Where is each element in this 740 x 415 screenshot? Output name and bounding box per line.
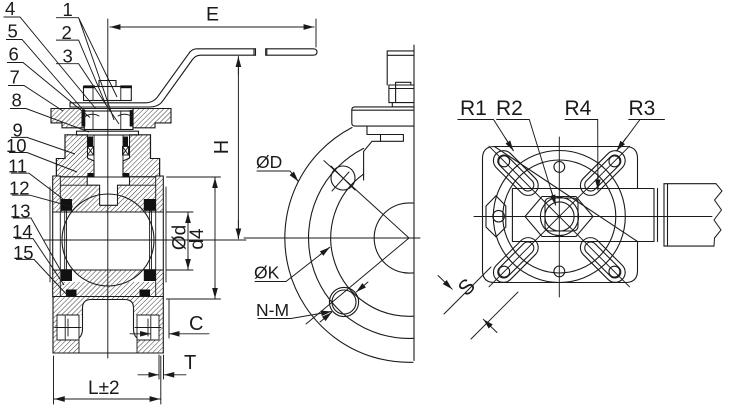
chamber wall right: [155, 177, 157, 297]
svg-text:6: 6: [9, 44, 19, 65]
svg-text:N-M: N-M: [256, 300, 289, 320]
svg-text:5: 5: [8, 21, 18, 42]
bore circle: [374, 203, 413, 273]
bolt hole top cross marks: [331, 166, 355, 191]
label 10 leader: [9, 153, 77, 173]
small hole top: [554, 162, 565, 173]
foot hole centermarks: [55, 319, 161, 336]
dimension Od (bore): [167, 211, 194, 213]
stem square top: [545, 198, 578, 231]
label 15 leader: [16, 259, 69, 297]
body outline right: [151, 135, 164, 297]
square mounting pad: [483, 147, 638, 283]
svg-text:4: 4: [5, 0, 15, 19]
svg-text:14: 14: [12, 221, 33, 242]
body bottom line: [53, 296, 164, 298]
svg-text:1: 1: [63, 0, 73, 20]
centerline horizontal (pipe axis): [44, 239, 174, 241]
bottom flange hatched band minus arch: [53, 297, 163, 316]
svg-text:C: C: [189, 313, 203, 335]
body outline left: [53, 135, 65, 297]
body wall left upper (hatched): [53, 176, 61, 212]
ball top crescent hatched left: [72, 195, 100, 212]
mounting plate right (hatched): [133, 109, 171, 128]
label 12 leader: [12, 195, 73, 207]
grip break (torn edge): [714, 184, 722, 246]
label 14 leader: [15, 239, 64, 285]
svg-text:11: 11: [8, 156, 27, 177]
label 2 leader: [56, 40, 106, 105]
svg-text:R3: R3: [629, 97, 656, 120]
hexagon hole: [493, 210, 505, 222]
flange circle ODmax: [285, 128, 413, 363]
svg-text:ØK: ØK: [254, 263, 280, 283]
seat upper right (black): [144, 199, 156, 211]
OK leader: [255, 248, 329, 282]
stem circles: [540, 197, 578, 235]
handle grip sleeve with break: [664, 184, 716, 246]
bore line bottom: [53, 269, 164, 271]
stem shaft: [93, 135, 95, 177]
pad circle inner: [503, 160, 616, 273]
dimension C: [130, 333, 151, 335]
neck steps: [364, 126, 381, 180]
svg-text:E: E: [206, 4, 219, 26]
centerline: [244, 237, 420, 239]
svg-text:R1: R1: [460, 97, 487, 120]
end lip right: [165, 187, 167, 282]
label 11 leader: [11, 173, 63, 199]
body bridge below ball (hatched): [60, 282, 155, 297]
gland packing bar right (black): [130, 110, 134, 127]
label 6 leader: [7, 63, 90, 118]
centerline vertical: [107, 19, 109, 358]
handle hub dark edges: [84, 85, 95, 88]
svg-text:ØD: ØD: [256, 152, 282, 172]
label 1 leader: [56, 18, 117, 120]
dome hatch left of stem: [60, 185, 99, 212]
stem hex nut (top view): [525, 197, 593, 237]
svg-text:12: 12: [9, 178, 30, 199]
end lip left: [49, 187, 51, 282]
hexagon end boss left: [486, 196, 506, 237]
svg-text:10: 10: [6, 135, 27, 156]
seat lower right (black): [144, 269, 156, 281]
dimension d4: [167, 176, 221, 178]
foot outlines: [53, 297, 163, 354]
ball: [62, 194, 154, 286]
foot right hatched bottom: [137, 340, 163, 353]
view centerlines: [558, 137, 560, 297]
label 7 leader: [8, 86, 63, 112]
gland packing bar left (black): [82, 110, 86, 127]
packing seal right (black): [123, 137, 128, 147]
stem tip: [99, 81, 116, 87]
bolt hole counterbore lines: [65, 316, 151, 339]
stem T-foot: [87, 177, 129, 205]
thrust seal left (black): [87, 173, 93, 177]
seat ring lines left: [65, 211, 67, 269]
diagonal centerline B: [489, 146, 630, 287]
bearing box left (X): [88, 147, 94, 156]
label 9 leader: [11, 137, 75, 154]
svg-text:15: 15: [13, 242, 34, 263]
bolt circle: [331, 174, 413, 316]
thrust seal right (black): [122, 173, 129, 177]
body neck left (hatched): [56, 135, 94, 177]
label 13 leader: [13, 218, 62, 273]
svg-text:L±2: L±2: [88, 378, 120, 399]
label 8 leader: [10, 109, 89, 133]
N-M leader: [258, 312, 331, 319]
handle band: [512, 189, 657, 242]
S dimension extension lines: [444, 267, 491, 314]
svg-text:7: 7: [10, 67, 20, 88]
svg-text:H: H: [211, 140, 233, 154]
dimension E: [315, 19, 317, 47]
label 4 leader: [4, 17, 97, 109]
handle lever (section view): [70, 49, 256, 103]
svg-text:8: 8: [12, 90, 22, 111]
svg-text:R4: R4: [565, 97, 592, 120]
body neck right (hatched): [123, 135, 160, 177]
ball bottom crescent hatched: [73, 270, 143, 286]
seat ring lines right: [150, 211, 152, 269]
S dimension arrows: [438, 276, 452, 290]
body gasket right (black): [140, 290, 151, 298]
bolt hole top: [331, 166, 355, 190]
dimension T: [138, 374, 159, 376]
bore line top: [53, 211, 164, 213]
stem column: [387, 51, 414, 85]
dimension L+-2: [53, 356, 55, 404]
pad circle outer: [493, 151, 625, 283]
flange face line: [413, 45, 415, 361]
radial line lower with arrows: [306, 238, 409, 324]
svg-text:R2: R2: [496, 97, 523, 120]
chamber shoulder lines: [60, 177, 155, 185]
ball top crescent hatched right: [118, 195, 145, 212]
nut N1 (top stem nut): [84, 87, 132, 101]
svg-text:d4: d4: [187, 228, 208, 250]
seat lower left (black): [61, 269, 72, 281]
svg-text:3: 3: [63, 45, 73, 66]
dimension H: [237, 57, 239, 238]
chamber shoulder band left (hatched): [60, 177, 87, 185]
radial line upper: [324, 161, 409, 238]
ball under-slot hatch: [100, 205, 118, 212]
small hole bottom: [554, 266, 565, 277]
body wall left lower (hatched): [53, 270, 61, 297]
dome hatch right of stem: [118, 185, 156, 212]
body wall right lower (hatched): [156, 270, 164, 297]
R labels underlines and leaders: [458, 120, 513, 151]
svg-text:13: 13: [10, 201, 31, 222]
corner slots (4 stadium slots): [489, 146, 629, 286]
stem washer plate: [77, 131, 139, 135]
arch cutout outline: [79, 300, 137, 339]
body gasket left (black): [66, 290, 77, 298]
gland nut N2: [84, 111, 133, 130]
chamber wall left: [59, 177, 61, 297]
mounting plate (edge): [352, 107, 414, 126]
diagonal centerline A: [489, 146, 630, 287]
stem nut (edge): [389, 85, 414, 103]
foot left hatched bottom: [53, 340, 79, 353]
packing seal left (black): [88, 137, 93, 147]
foot outer sliver hatches: [53, 315, 57, 340]
stem washer (edge): [392, 103, 413, 107]
flange circle raised face: [309, 148, 414, 338]
seat upper left (black): [61, 199, 72, 211]
svg-text:T: T: [184, 352, 196, 374]
bearing box right (X): [123, 147, 129, 156]
label 5 leader: [6, 40, 85, 113]
OD leader: [257, 171, 298, 181]
chamber shoulder band right (hatched): [130, 177, 156, 185]
mounting plate left (hatched): [51, 109, 84, 128]
svg-text:2: 2: [62, 22, 72, 43]
body wall right upper (hatched): [156, 176, 164, 212]
handle bar second segment after break: [266, 49, 317, 55]
plate top edge: [51, 108, 171, 110]
bolt hole bottom (double): [329, 287, 358, 316]
label 3 leader: [56, 64, 119, 124]
